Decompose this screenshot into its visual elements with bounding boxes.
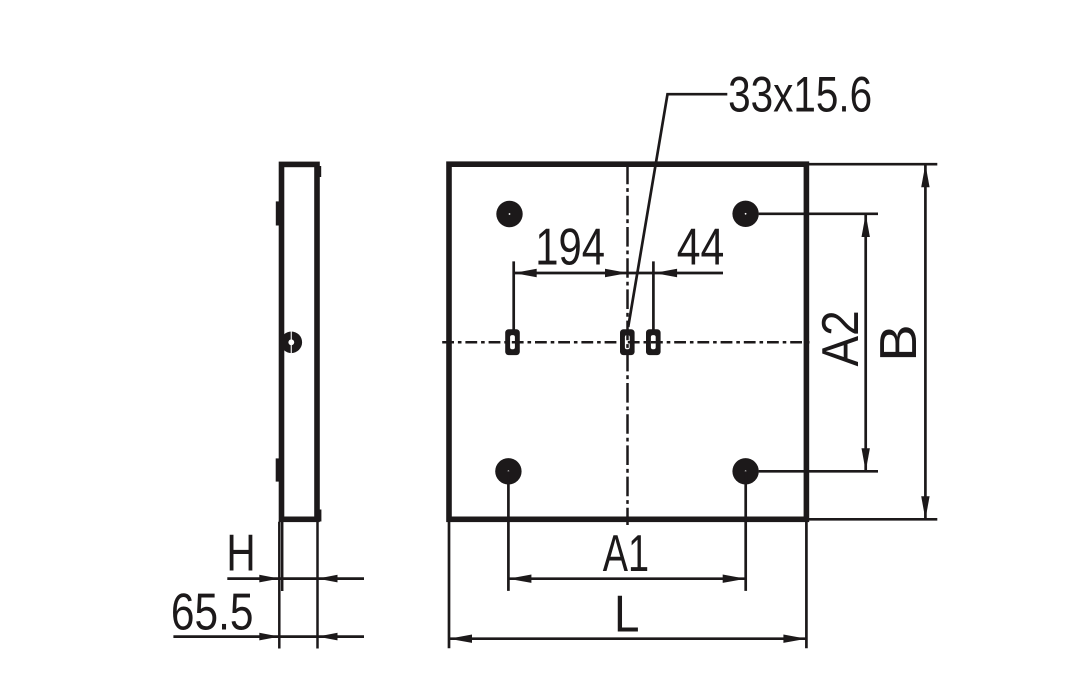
label H: [226, 523, 255, 581]
dim A2 extension bottom: [759, 470, 878, 473]
dim line L: [449, 637, 806, 640]
dim B extension top: [809, 163, 937, 166]
dim L extension left: [448, 522, 451, 649]
arrow 194 right: [605, 269, 628, 277]
svg-text:33x15.6: 33x15.6: [728, 67, 872, 123]
hole top-left: [496, 201, 522, 227]
side view bottom-right corner nub: [317, 510, 322, 522]
side view plate outline: [282, 164, 318, 519]
side view upper tab: [276, 201, 284, 225]
arrow 194 left: [514, 269, 537, 277]
slot left: [505, 329, 520, 355]
dim A1 extension left: [507, 471, 510, 591]
dim 194/44 extension line right: [652, 261, 655, 329]
hole bottom-right: [732, 458, 758, 484]
label B: [870, 324, 928, 361]
dim 194/44 extension line left: [512, 261, 515, 329]
svg-text:H: H: [226, 523, 255, 581]
arrow L right: [783, 635, 806, 643]
slot right: [646, 329, 661, 355]
dim line B: [924, 164, 927, 519]
arrow B top: [921, 164, 929, 187]
dim H/65.5 extension left outer: [278, 522, 281, 649]
dim line H: [227, 577, 364, 580]
dim line A1: [508, 577, 745, 580]
side view lower tab: [276, 458, 284, 481]
svg-text:A1: A1: [603, 524, 649, 582]
arrow A2 bottom: [862, 448, 870, 471]
arrow A2 top: [862, 214, 870, 237]
dim A2 extension top: [759, 212, 878, 215]
dim A1 extension right: [744, 471, 747, 591]
label A2: [812, 310, 869, 366]
label 44: [677, 219, 725, 277]
hole top-right: [732, 201, 758, 227]
vertical centerline: [626, 165, 629, 525]
svg-text:L: L: [614, 586, 639, 643]
label L: [614, 586, 639, 643]
hole bottom-left: [495, 458, 521, 484]
svg-text:194: 194: [535, 217, 605, 275]
svg-text:65.5: 65.5: [171, 583, 254, 641]
arrow H right: [318, 575, 338, 583]
arrow A1 right: [723, 575, 746, 583]
arrow 44: [654, 269, 677, 277]
arrow H left: [259, 575, 279, 583]
arrow 65.5 left: [259, 633, 279, 641]
arrow L left: [449, 635, 472, 643]
dim L extension right: [805, 522, 808, 649]
label A1: [603, 524, 649, 582]
dim B extension bottom: [809, 518, 937, 521]
svg-text:44: 44: [677, 219, 725, 277]
horizontal centerline: [442, 341, 810, 344]
label 33x15.6: [728, 67, 872, 123]
slot middle: [620, 329, 635, 355]
dim H/65.5 extension right: [316, 522, 319, 649]
front view plate outline: [449, 164, 806, 519]
arrow B bottom: [921, 496, 929, 519]
side view hole: [281, 331, 303, 353]
svg-text:B: B: [870, 324, 928, 361]
side view top-right corner nub: [317, 166, 322, 177]
arrow A1 left: [508, 575, 531, 583]
arrow 65.5 right: [318, 633, 338, 641]
label 194: [535, 217, 605, 275]
dim line A2: [864, 214, 867, 471]
label 65.5: [171, 583, 254, 641]
dim H extension left inner stub: [281, 522, 284, 591]
svg-text:A2: A2: [812, 310, 869, 366]
leader line 33x15.6: [628, 94, 727, 327]
dim line 65.5: [173, 635, 364, 638]
dim line 194 and 44: [514, 272, 723, 275]
